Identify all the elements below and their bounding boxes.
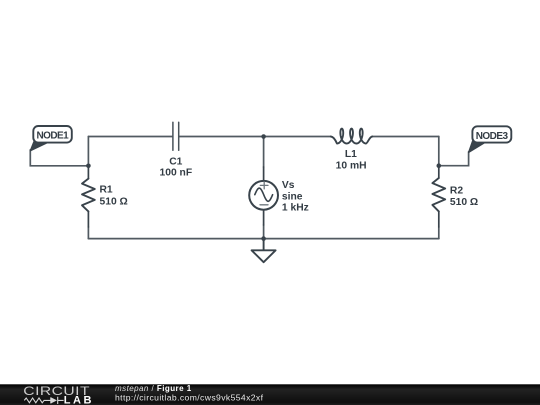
svg-text:510 Ω: 510 Ω bbox=[100, 197, 128, 208]
svg-text:510 Ω: 510 Ω bbox=[450, 197, 478, 208]
svg-text:mstepan / Figure 1: mstepan / Figure 1 bbox=[115, 384, 192, 393]
svg-text:C1: C1 bbox=[169, 157, 182, 168]
svg-text:http://circuitlab.com/cws9vk55: http://circuitlab.com/cws9vk554x2xf bbox=[115, 393, 264, 403]
svg-text:100 nF: 100 nF bbox=[159, 168, 192, 179]
svg-text:L1: L1 bbox=[345, 149, 357, 160]
svg-text:LAB: LAB bbox=[64, 394, 94, 405]
svg-text:10 mH: 10 mH bbox=[336, 160, 367, 171]
svg-text:R1: R1 bbox=[100, 185, 113, 196]
svg-text:NODE1: NODE1 bbox=[37, 131, 70, 142]
svg-text:NODE3: NODE3 bbox=[476, 131, 509, 142]
svg-text:Vs: Vs bbox=[282, 180, 295, 191]
svg-text:R2: R2 bbox=[450, 185, 463, 196]
svg-text:1 kHz: 1 kHz bbox=[282, 203, 309, 214]
svg-text:sine: sine bbox=[282, 192, 303, 203]
